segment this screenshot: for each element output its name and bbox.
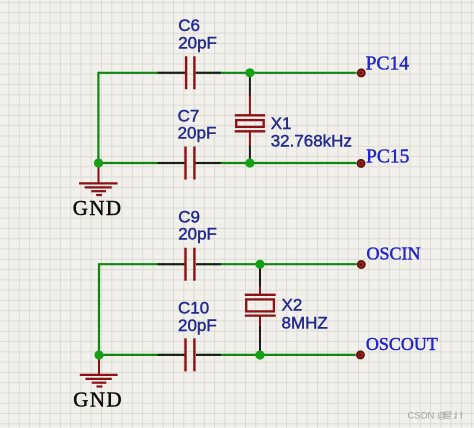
svg-text:20pF: 20pF [178, 33, 217, 52]
svg-text:C6: C6 [178, 16, 200, 35]
svg-text:GND: GND [73, 388, 123, 412]
svg-text:X2: X2 [282, 295, 303, 314]
svg-text:C9: C9 [178, 207, 200, 226]
svg-text:PC14: PC14 [366, 53, 410, 74]
svg-text:CSDN @: CSDN @ [408, 410, 447, 421]
svg-text:OSCIN: OSCIN [367, 243, 421, 263]
svg-text:GND: GND [73, 196, 123, 220]
svg-text:20pF: 20pF [178, 316, 217, 335]
svg-text:OSCOUT: OSCOUT [366, 334, 438, 354]
svg-text:X1: X1 [271, 114, 292, 133]
svg-text:8MHZ: 8MHZ [282, 314, 328, 333]
svg-text:20pF: 20pF [178, 124, 217, 143]
svg-text:32.768kHz: 32.768kHz [271, 131, 352, 150]
svg-text:20pF: 20pF [178, 225, 217, 244]
svg-text:PC15: PC15 [366, 147, 409, 168]
svg-text:C10: C10 [178, 299, 209, 318]
svg-text:C7: C7 [178, 106, 200, 125]
